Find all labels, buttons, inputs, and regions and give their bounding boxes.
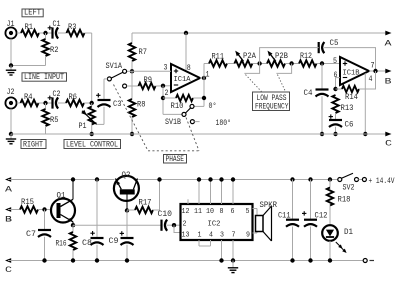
svg-text:C: C (5, 266, 12, 275)
svg-text:R3: R3 (68, 23, 77, 32)
svg-text:13: 13 (182, 231, 190, 239)
svg-text:4: 4 (209, 231, 213, 239)
svg-text:C12: C12 (315, 212, 328, 221)
svg-text:R2: R2 (50, 46, 59, 55)
svg-text:C5: C5 (330, 39, 339, 48)
svg-text:11: 11 (194, 208, 202, 216)
svg-text:7: 7 (371, 62, 375, 71)
svg-text:J1: J1 (7, 20, 15, 29)
svg-text:R10: R10 (171, 102, 184, 111)
svg-text:2: 2 (165, 89, 169, 98)
svg-text:LEVEL CONTROL: LEVEL CONTROL (66, 140, 118, 149)
svg-text:SV1B: SV1B (165, 118, 181, 127)
svg-text:P2A: P2A (243, 52, 256, 61)
svg-text:R9: R9 (144, 76, 153, 85)
svg-text:1: 1 (198, 231, 202, 239)
svg-text:180°: 180° (216, 119, 232, 128)
svg-text:PHASE: PHASE (166, 155, 185, 164)
svg-text:J2: J2 (7, 88, 15, 97)
svg-text:C1: C1 (53, 20, 61, 29)
svg-text:5: 5 (246, 208, 250, 216)
svg-text:SV1A: SV1A (106, 62, 123, 71)
svg-text:R18: R18 (338, 196, 351, 205)
svg-text:0°: 0° (209, 102, 217, 111)
svg-text:C11: C11 (278, 212, 291, 221)
svg-text:R6: R6 (69, 93, 78, 102)
svg-text:C10: C10 (158, 210, 173, 219)
svg-text:C2: C2 (53, 90, 61, 99)
svg-text:R7: R7 (139, 48, 148, 57)
svg-text:FREQUENCY: FREQUENCY (255, 102, 289, 111)
svg-text:IC1A: IC1A (174, 76, 191, 84)
svg-text:2: 2 (183, 220, 187, 228)
svg-text:R1: R1 (25, 23, 34, 32)
svg-text:P2B: P2B (275, 52, 288, 61)
svg-text:R14: R14 (345, 93, 358, 102)
svg-text:IC1B: IC1B (343, 69, 360, 77)
svg-text:LEFT: LEFT (24, 9, 41, 18)
svg-text:5: 5 (333, 57, 337, 66)
svg-text:9: 9 (246, 231, 250, 239)
svg-text:LINE INPUT: LINE INPUT (24, 73, 64, 82)
svg-text:C4: C4 (304, 89, 313, 98)
svg-text:B: B (5, 216, 12, 225)
svg-text:8: 8 (220, 208, 224, 216)
svg-text:Q1: Q1 (57, 192, 66, 201)
svg-text:A: A (385, 40, 392, 49)
svg-text:RIGHT: RIGHT (23, 140, 43, 149)
svg-text:C7: C7 (26, 230, 36, 239)
svg-text:8: 8 (187, 64, 191, 73)
svg-text:Q2: Q2 (122, 171, 131, 180)
svg-text:4: 4 (369, 75, 373, 84)
svg-text:R15: R15 (21, 198, 34, 207)
svg-text:12: 12 (182, 208, 190, 216)
svg-text:C8: C8 (82, 239, 92, 248)
svg-text:P1: P1 (79, 122, 87, 131)
svg-text:SV2: SV2 (343, 184, 355, 193)
svg-text:R17: R17 (139, 198, 152, 207)
svg-text:R13: R13 (341, 104, 354, 113)
svg-text:10: 10 (206, 208, 214, 216)
svg-text:R5: R5 (50, 116, 59, 125)
svg-text:R16: R16 (56, 240, 67, 249)
svg-text:A: A (5, 186, 12, 195)
svg-text:C3: C3 (113, 100, 122, 109)
svg-text:+ 14.4V: + 14.4V (369, 177, 395, 186)
svg-text:6: 6 (231, 208, 235, 216)
svg-text:7: 7 (232, 231, 236, 239)
svg-text:C6: C6 (345, 121, 354, 130)
svg-text:IC2: IC2 (208, 221, 221, 229)
svg-text:R12: R12 (300, 52, 312, 61)
svg-text:SPKR: SPKR (260, 201, 278, 210)
svg-text:C9: C9 (109, 237, 119, 246)
svg-text:R4: R4 (24, 93, 33, 102)
svg-text:D1: D1 (344, 228, 353, 237)
svg-text:R11: R11 (212, 53, 225, 62)
svg-text:R8: R8 (137, 101, 146, 110)
svg-text:3: 3 (220, 231, 224, 239)
svg-text:C: C (385, 140, 392, 149)
svg-text:B: B (385, 78, 392, 87)
